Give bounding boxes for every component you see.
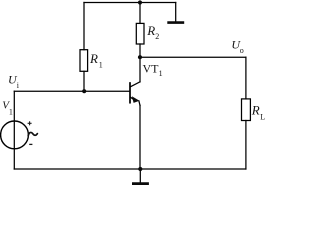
transistor VT1 emitter arrowhead: [132, 96, 140, 103]
node dot collector / output: [138, 55, 142, 59]
svg-text:1: 1: [159, 69, 163, 78]
wire R2 top drop: [139, 3, 141, 24]
source V1 tilde: [28, 132, 37, 135]
wire base line: [14, 90, 129, 92]
wire ground stub bottom: [139, 169, 141, 182]
svg-text:L: L: [260, 112, 265, 121]
node dot emitter / bottom rail: [138, 167, 142, 171]
ground top right bar: [167, 21, 184, 24]
wire left drop to V1: [13, 91, 15, 169]
voltage source V1: [1, 121, 29, 149]
wire top rail: [84, 2, 176, 4]
wire RL to bottom rail: [245, 121, 247, 170]
svg-text:1: 1: [99, 60, 103, 69]
ground bottom bar: [132, 182, 149, 185]
wire collector drop: [139, 57, 141, 82]
wire bottom rail: [14, 168, 246, 170]
svg-text:o: o: [240, 46, 244, 55]
svg-text:R: R: [89, 51, 98, 66]
svg-text:VT: VT: [143, 61, 160, 75]
wire R1 bottom: [83, 71, 85, 91]
resistor R2: [136, 23, 144, 44]
source V1 minus sign: [29, 143, 32, 145]
svg-text:R: R: [251, 103, 260, 118]
wire R1 top drop: [83, 3, 85, 50]
source V1 plus sign: [28, 121, 32, 125]
transistor VT1 base bar: [129, 83, 131, 103]
node dot base / R1 bottom: [82, 89, 86, 93]
wire output line: [140, 56, 246, 58]
wire right drop to RL: [245, 57, 247, 99]
wire R2 to collector node: [139, 44, 141, 57]
svg-text:2: 2: [155, 32, 159, 41]
transistor VT1 emitter tail: [139, 101, 140, 106]
resistor RL: [242, 99, 251, 121]
resistor R1: [80, 50, 88, 72]
svg-text:1: 1: [9, 107, 13, 116]
wire ground stub top right: [175, 3, 177, 22]
transistor VT1 emitter slant: [131, 97, 135, 100]
svg-text:R: R: [146, 23, 155, 38]
node dot top: [138, 0, 142, 4]
wire emitter drop: [139, 105, 141, 169]
transistor VT1 collector slant: [130, 82, 140, 87]
